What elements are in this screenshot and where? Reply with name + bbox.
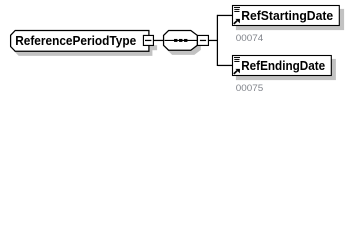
svg-text:00075: 00075	[236, 83, 264, 93]
svg-text:00074: 00074	[236, 33, 264, 43]
svg-text:RefEndingDate: RefEndingDate	[241, 59, 325, 73]
svg-text:RefStartingDate: RefStartingDate	[241, 9, 333, 23]
svg-text:ReferencePeriodType: ReferencePeriodType	[15, 34, 136, 48]
